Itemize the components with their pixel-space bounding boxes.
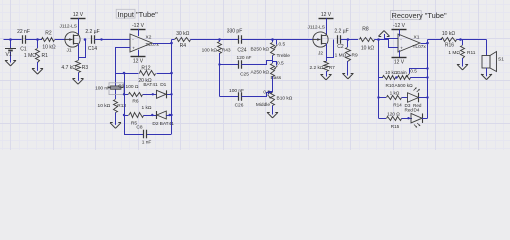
wire treble to bass (272, 56, 274, 64)
wire J1 source jog (79, 40, 86, 58)
wire R5 to D2 (144, 114, 157, 116)
wire J2 source jog (327, 40, 334, 58)
wire minus rail down (114, 73, 116, 99)
resistor R10 (383, 70, 398, 88)
capacitor C9 (95, 83, 125, 91)
svg-text:0.5: 0.5 (277, 61, 284, 67)
svg-text:4.7 kΩ: 4.7 kΩ (61, 65, 76, 71)
wire pot to rail (410, 76, 428, 78)
wire 12V to J1 drain (78, 18, 80, 35)
wire R2 to J1 gate (55, 39, 65, 41)
wire 12V stub X1 bottom (399, 50, 401, 57)
svg-text:1 MΩ: 1 MΩ (24, 53, 36, 59)
svg-text:0.5: 0.5 (279, 41, 286, 47)
svg-text:C14: C14 (88, 46, 97, 52)
svg-text:330 pF: 330 pF (227, 29, 243, 35)
resistor R9 (335, 40, 358, 74)
LED D4 (411, 113, 423, 127)
wire bass to middle (272, 77, 274, 93)
svg-text:10 kΩ: 10 kΩ (42, 44, 55, 50)
svg-text:R11: R11 (467, 50, 476, 56)
svg-text:J1: J1 (67, 47, 72, 53)
resistor R2 (42, 31, 56, 51)
svg-text:+: + (400, 45, 403, 50)
wire R12 to rail (157, 72, 173, 75)
svg-text:Middle: Middle (256, 102, 270, 108)
diode D2 (152, 111, 174, 127)
svg-text:R6: R6 (132, 98, 138, 104)
svg-text:R4: R4 (180, 43, 187, 49)
ground for R1 (32, 68, 43, 75)
svg-text:R7: R7 (329, 65, 335, 71)
resistor R12 (138, 65, 155, 84)
speaker S1 (482, 52, 504, 72)
resistor R16 (441, 31, 457, 48)
wire R8 to X1 -in (375, 38, 399, 47)
wire clip rail left X1 (378, 40, 380, 119)
wire C2 to R8 (341, 38, 358, 41)
wire R14 to D3 (402, 97, 408, 99)
svg-text:10 kΩ: 10 kΩ (442, 31, 455, 37)
wire 12V to J2 drain (326, 18, 328, 35)
svg-text:12 V: 12 V (321, 12, 332, 18)
resistor R11 (448, 40, 475, 65)
capacitor C8 (136, 125, 151, 146)
resistor R8 (360, 27, 375, 52)
svg-text:Gain: Gain (397, 70, 407, 75)
transistor J1 (60, 24, 81, 54)
svg-text:BAT41: BAT41 (160, 121, 175, 127)
potentiometer Middle B10k (256, 89, 293, 107)
wire C26 row (220, 96, 239, 98)
wire R15 to D4 (402, 117, 413, 119)
svg-text:30 kΩ: 30 kΩ (176, 31, 189, 37)
svg-text:D4: D4 (414, 107, 420, 112)
capacitor C1 (17, 29, 30, 53)
svg-text:R16: R16 (445, 42, 454, 48)
svg-text:J112-LS: J112-LS (60, 24, 78, 30)
wire R6 row start (123, 93, 128, 95)
wire led2 row start (379, 118, 387, 120)
wire -12V stub X1 (399, 29, 401, 36)
svg-text:120 Ω: 120 Ω (387, 112, 400, 117)
svg-text:R43: R43 (222, 47, 231, 53)
power 12V for J1 (71, 12, 86, 19)
svg-text:V1: V1 (6, 52, 12, 58)
svg-text:22 nF: 22 nF (17, 29, 30, 35)
svg-text:R12: R12 (141, 65, 150, 71)
wire C25 to pots (242, 61, 273, 65)
svg-text:10 kΩ: 10 kΩ (98, 103, 111, 109)
potentiometer Bass A250k (250, 61, 284, 81)
svg-text:-12 V: -12 V (132, 23, 145, 29)
source V1 (5, 40, 16, 60)
svg-text:R10: R10 (386, 83, 395, 88)
svg-text:Treble: Treble (277, 53, 291, 59)
wire X1 out row (428, 39, 443, 41)
svg-text:R8: R8 (362, 27, 369, 33)
wire C24 to J2 gate (242, 38, 313, 41)
svg-text:12 V: 12 V (394, 60, 405, 66)
resistor R1 (24, 40, 48, 69)
svg-text:12 V: 12 V (73, 12, 84, 18)
wire led1 row start (377, 96, 386, 98)
wire clip rail left (124, 73, 126, 134)
capacitor C2 (334, 29, 348, 50)
resistor R13 (98, 100, 127, 123)
wire clip rail right (427, 40, 429, 119)
capacitor C9 box (109, 83, 124, 95)
wire X2 out row (172, 39, 175, 41)
svg-text:J112-LS: J112-LS (308, 25, 326, 31)
transistor J2 (308, 25, 329, 57)
svg-text:C2: C2 (337, 44, 344, 50)
op-amp X1 (398, 34, 426, 52)
diode D1 (143, 82, 166, 98)
svg-text:C25: C25 (240, 72, 249, 78)
ground for R9 (342, 72, 353, 79)
resistor R3 (61, 57, 88, 78)
svg-text:R15: R15 (391, 124, 400, 129)
wire branch R12 row (116, 72, 139, 75)
wire C8 row (124, 134, 172, 136)
svg-text:100 Ω: 100 Ω (126, 84, 139, 90)
resistor R4 (175, 31, 191, 49)
svg-text:R2: R2 (45, 31, 52, 37)
potentiometer Gain A500k (395, 69, 418, 88)
wire tone rail top (272, 40, 274, 43)
power 12V for X1 (392, 58, 407, 66)
svg-text:C26: C26 (235, 103, 244, 109)
svg-text:Recovery "Tube": Recovery "Tube" (392, 11, 447, 20)
capacitor C25 (237, 55, 252, 77)
svg-text:X2: X2 (146, 35, 152, 41)
wire C1 to R2 (26, 38, 42, 41)
svg-text:Input "Tube": Input "Tube" (118, 10, 159, 19)
wire R4 to C24 (190, 38, 238, 41)
op-amp X2 (130, 34, 159, 52)
svg-text:TL07x: TL07x (146, 42, 160, 48)
wire R16 to speaker (457, 38, 487, 41)
ground for R3 (73, 78, 84, 85)
resistor R5 (129, 105, 152, 126)
svg-text:C8: C8 (136, 125, 142, 131)
wire gain wiper tie (410, 67, 429, 73)
wire speaker to ground (486, 68, 488, 74)
svg-text:2.2 µF: 2.2 µF (85, 29, 99, 35)
wire middle to ground (272, 106, 274, 113)
svg-text:1 kΩ: 1 kΩ (142, 105, 152, 111)
svg-text:BAT41: BAT41 (143, 82, 158, 88)
wire R6 to D1 (143, 93, 157, 95)
resistor R6 (126, 84, 143, 104)
svg-text:R1: R1 (42, 53, 49, 59)
svg-text:TL07x: TL07x (413, 44, 427, 50)
ground for R7 (321, 73, 332, 80)
wire input row left (4, 38, 22, 41)
wire X2 -in to rail (116, 48, 131, 74)
wire D1 to rail (167, 93, 173, 95)
svg-text:C9: C9 (118, 83, 124, 89)
wire 12V stub X2 bottom (138, 50, 140, 56)
wire C25 row (218, 63, 238, 65)
ground for R13 (110, 122, 121, 129)
power 12V for X2 (131, 57, 146, 65)
wire to speaker S1 (486, 40, 488, 56)
svg-text:1 kΩ: 1 kΩ (390, 91, 400, 96)
wire gain row start (379, 77, 384, 79)
svg-text:1 MΩ: 1 MΩ (448, 50, 460, 56)
capacitor C14 (85, 29, 99, 52)
svg-text:B10 kΩ: B10 kΩ (277, 96, 293, 102)
capacitor C26 (229, 88, 244, 108)
wire R5 row start (123, 114, 128, 116)
svg-text:-12 V: -12 V (393, 23, 406, 29)
svg-text:2.2 µF: 2.2 µF (334, 29, 348, 35)
power -12V for X1 (392, 23, 407, 29)
ground up at X1 +in (379, 31, 390, 39)
svg-text:D1: D1 (160, 82, 166, 88)
svg-text:100 nF: 100 nF (95, 85, 110, 91)
resistor R15 (387, 112, 402, 129)
svg-text:12 V: 12 V (133, 59, 144, 65)
svg-text:1 MΩ: 1 MΩ (335, 53, 347, 59)
resistor R7 (310, 58, 336, 74)
wire X2 output jog (153, 40, 173, 45)
wire R10 pot junction (395, 76, 397, 78)
svg-text:10 kΩ: 10 kΩ (361, 46, 374, 52)
svg-text:C24: C24 (237, 47, 246, 53)
svg-text:+: + (132, 45, 135, 50)
label D3 Red (405, 103, 422, 113)
svg-text:0.5: 0.5 (263, 89, 270, 95)
wire X1 output jog (421, 40, 429, 45)
svg-text:R3: R3 (82, 65, 89, 71)
power 12V for J2 (319, 12, 334, 19)
svg-text:S1: S1 (498, 57, 504, 63)
svg-text:R14: R14 (393, 103, 402, 108)
svg-text:0.5: 0.5 (410, 69, 417, 74)
svg-text:X1: X1 (414, 35, 420, 41)
svg-text:2.2 kΩ: 2.2 kΩ (310, 65, 324, 71)
ground for R11 (457, 63, 468, 70)
wire gnd to X1 +in (384, 38, 398, 40)
title Input Tube (116, 9, 158, 18)
svg-text:Red: Red (405, 107, 414, 112)
svg-text:J2: J2 (318, 50, 323, 56)
wire D4 to rail (422, 118, 428, 120)
wire -12V stub X2 (138, 29, 140, 36)
title Recovery Tube (390, 11, 447, 21)
svg-text:A500 kΩ: A500 kΩ (395, 83, 414, 88)
svg-text:120 nF: 120 nF (237, 55, 252, 61)
ground for tone stack (267, 111, 278, 118)
svg-text:100 kΩ: 100 kΩ (202, 47, 218, 53)
resistor R14 (387, 91, 403, 108)
svg-text:D2: D2 (152, 121, 158, 127)
svg-text:1 nF: 1 nF (142, 139, 152, 145)
wire D3 to rail (419, 96, 429, 98)
wire D2 to rail (166, 114, 172, 116)
wire feedback rail right (171, 40, 173, 135)
svg-text:R13: R13 (117, 103, 126, 109)
wire C26 to pots (242, 93, 273, 97)
svg-text:A250 kΩ: A250 kΩ (250, 70, 269, 76)
resistor R43 (202, 40, 231, 97)
ground for V1 (5, 59, 16, 66)
capacitor C24 (227, 29, 247, 54)
potentiometer Treble B250k (250, 40, 290, 59)
svg-text:R9: R9 (352, 53, 358, 59)
svg-text:C1: C1 (20, 47, 27, 53)
svg-text:B250 kΩ: B250 kΩ (250, 46, 269, 52)
ground for S1 (481, 73, 492, 80)
LED D3 (408, 88, 420, 103)
svg-text:100 nF: 100 nF (229, 88, 244, 94)
power -12V for X2 (131, 23, 146, 30)
wire C14 to X2 +in (84, 38, 130, 41)
